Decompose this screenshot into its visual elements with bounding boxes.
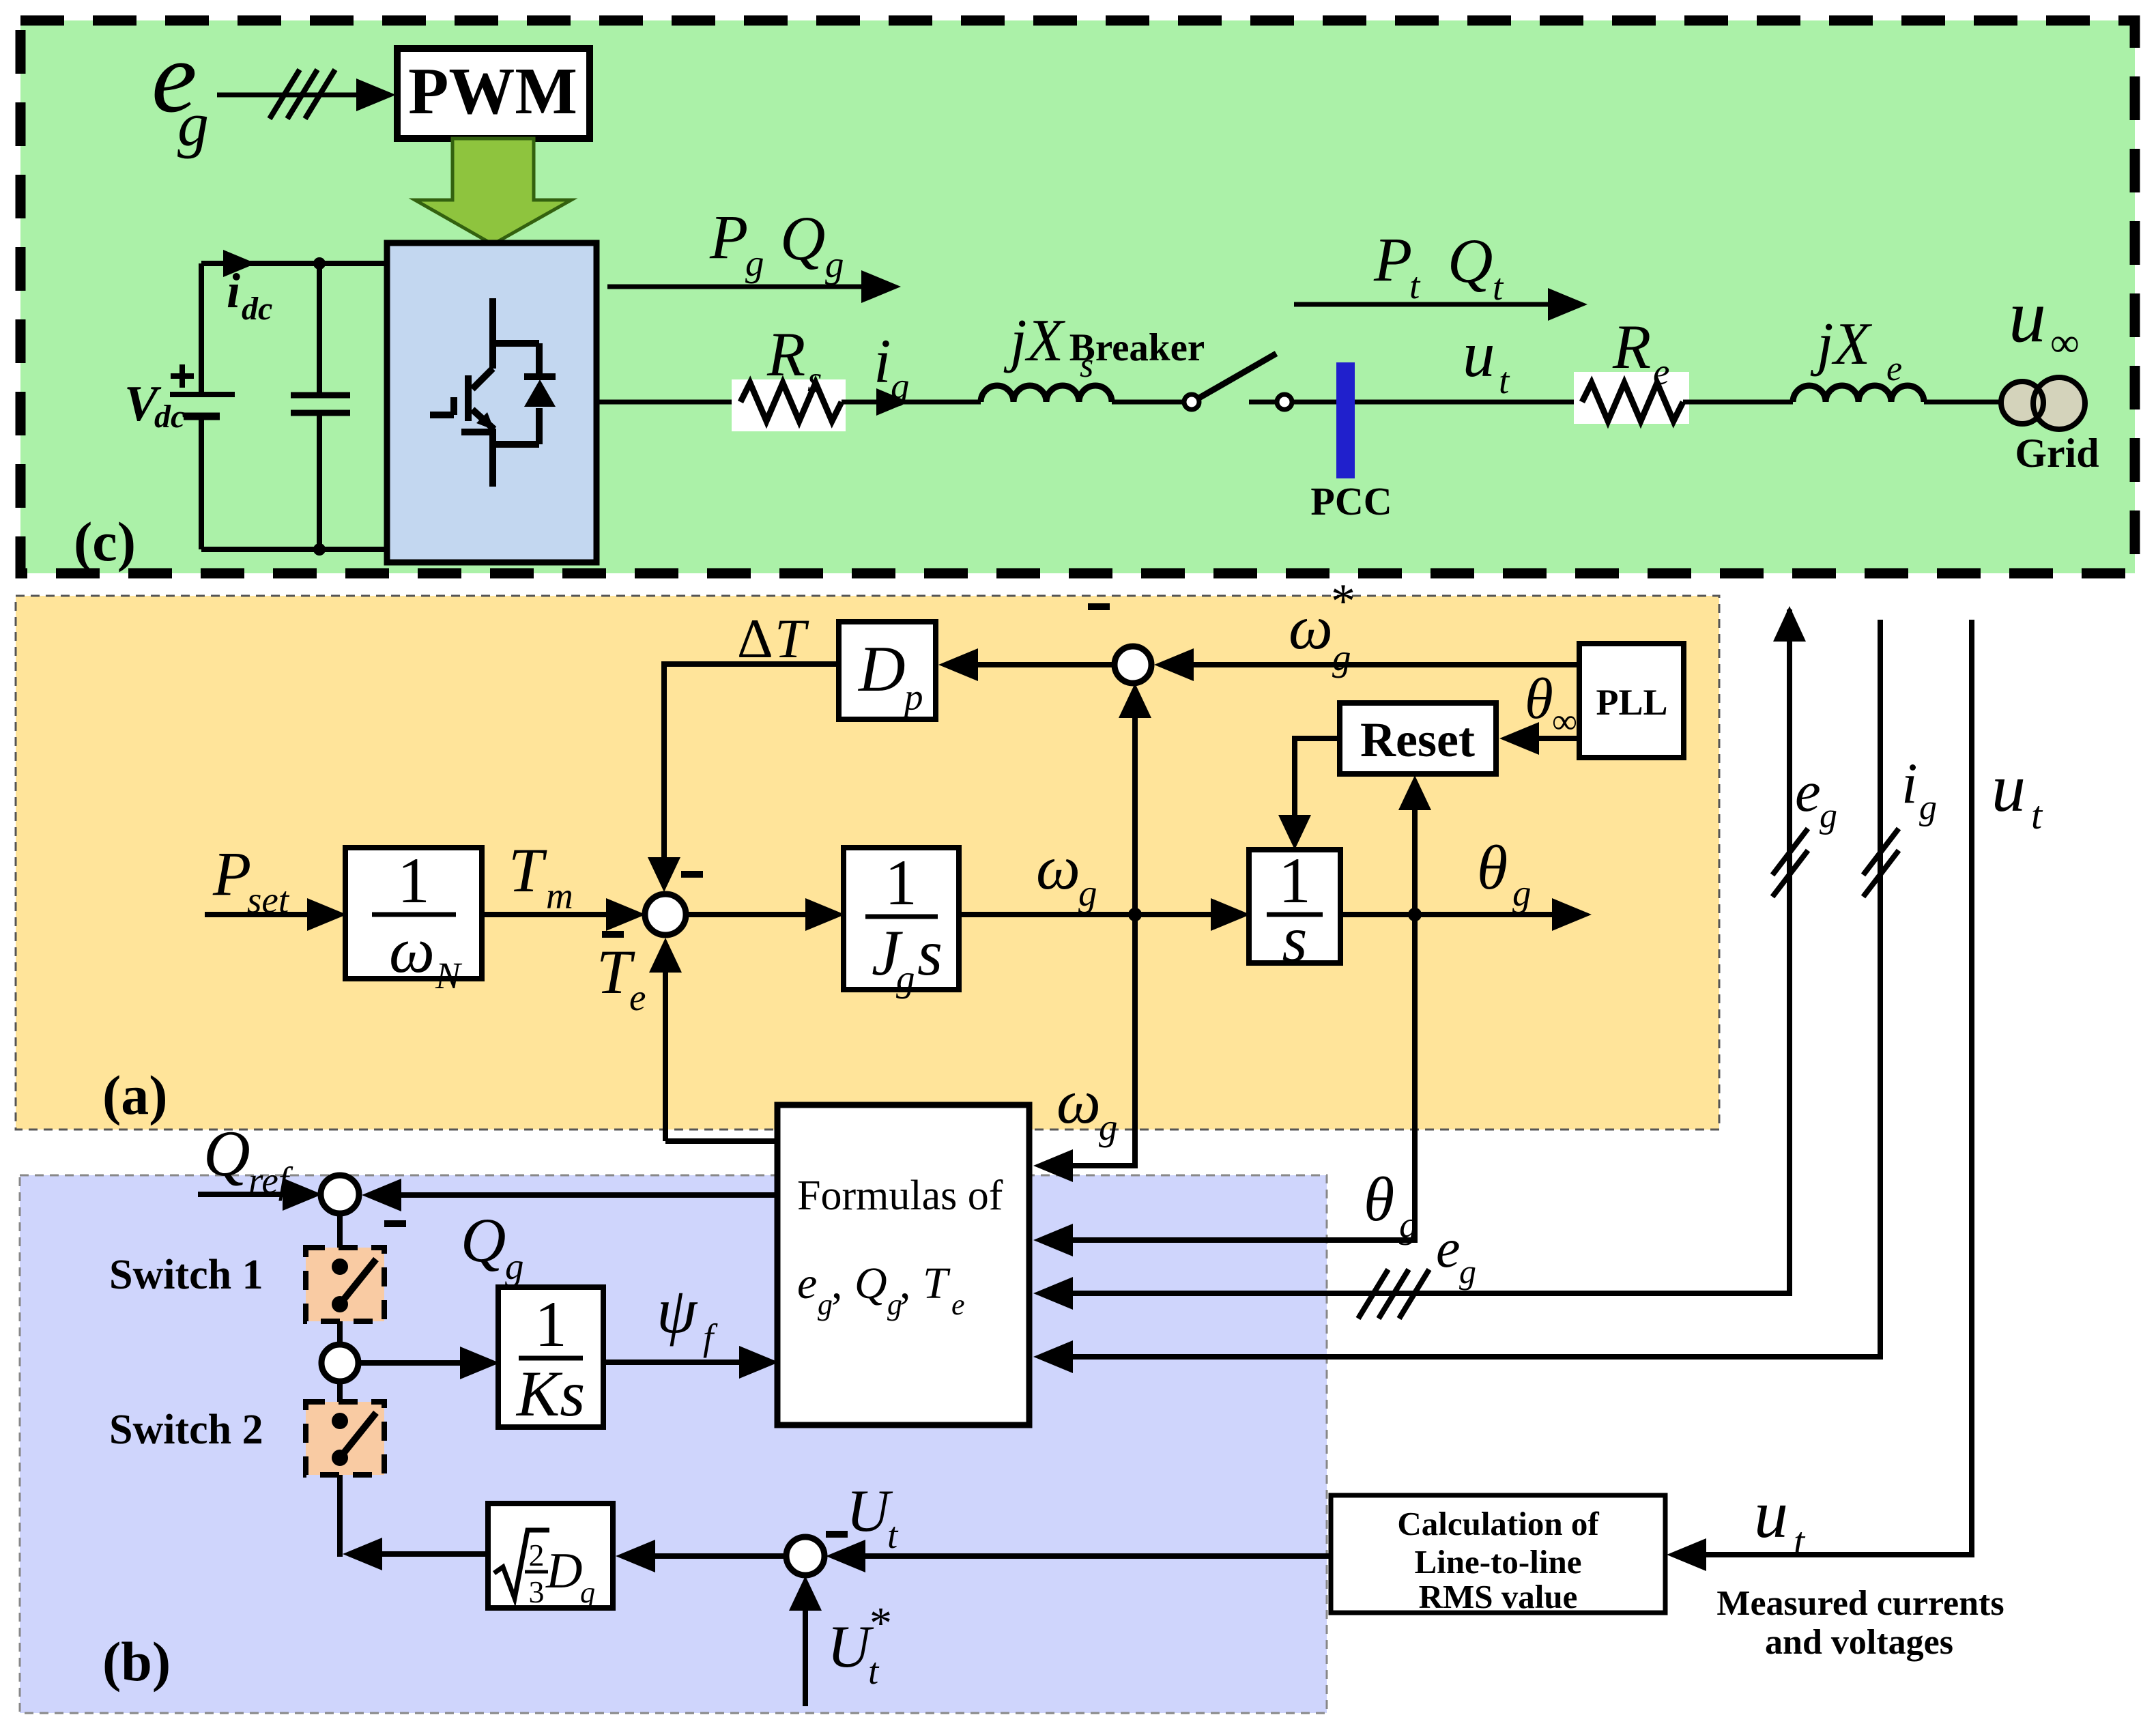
double slash ig vertical: [1863, 829, 1899, 897]
diode D1: [524, 373, 556, 380]
svg-text:g: g: [177, 89, 209, 159]
svg-text:*: *: [1331, 574, 1355, 629]
svg-text:ω: ω: [389, 914, 435, 986]
wire converter ac output: [597, 400, 741, 405]
svg-text:2: 2: [529, 1538, 545, 1572]
svg-text:t: t: [1499, 360, 1510, 401]
svg-text:Reset: Reset: [1360, 713, 1475, 767]
svg-text:(a): (a): [102, 1064, 168, 1126]
svg-text:1: 1: [397, 844, 430, 917]
wire jXe to grid: [1924, 400, 2003, 405]
svg-text:g: g: [1512, 872, 1532, 914]
wire eg to PWM: [217, 93, 362, 98]
svg-text:Q: Q: [461, 1205, 506, 1275]
triple slash eg horizontal: [1358, 1269, 1429, 1319]
wire Pset input: [205, 912, 315, 917]
svg-text:Formulas of: Formulas of: [797, 1173, 1003, 1219]
wire theta-g up into Reset: [1412, 805, 1418, 915]
minus sign Te input: [602, 931, 624, 938]
svg-text:θ: θ: [1364, 1164, 1394, 1234]
minus sign dT input: [681, 871, 703, 878]
panel (c) power circuit green panel: [20, 20, 2135, 573]
resistor Re: [1574, 372, 1689, 424]
inductor jXs: [981, 386, 1112, 402]
wire wg* from PLL to S2: [1185, 662, 1579, 667]
svg-text:,: ,: [831, 1258, 843, 1308]
svg-text:g: g: [1332, 637, 1351, 678]
wire Te from Formulas up into S1: [665, 969, 777, 1141]
wire Qg feedback from Formulas: [392, 1192, 777, 1198]
svg-text:g: g: [891, 365, 910, 407]
svg-text:R: R: [766, 319, 805, 389]
svg-text:T: T: [775, 607, 809, 670]
svg-text:Grid: Grid: [2015, 431, 2099, 476]
svg-text:D: D: [857, 633, 906, 705]
svg-text:1: 1: [534, 1288, 567, 1360]
svg-text:Measured currents: Measured currents: [1716, 1584, 2004, 1623]
wire ig: [842, 400, 981, 405]
svg-text:U: U: [827, 1614, 874, 1680]
svg-text:e: e: [797, 1258, 817, 1308]
wire switch1 to node: [337, 1321, 343, 1346]
block 1/wN: [345, 848, 482, 979]
svg-text:P: P: [709, 202, 748, 272]
svg-text:p: p: [902, 676, 923, 718]
svg-text:s: s: [917, 917, 943, 989]
svg-text:θ: θ: [1477, 833, 1508, 902]
svg-text:e: e: [1886, 349, 1902, 388]
wire node to switch2: [337, 1381, 343, 1405]
wire Re to jXe: [1683, 400, 1793, 405]
svg-text:PCC: PCC: [1310, 479, 1392, 523]
wire Tm: [482, 912, 614, 917]
block 1/Jgs: [844, 848, 959, 990]
resistor Rs: [732, 379, 846, 431]
svg-text:g: g: [1919, 788, 1937, 827]
node N1: [321, 1344, 358, 1381]
minus sign S2: [1088, 603, 1110, 610]
svg-text:t: t: [887, 1514, 899, 1556]
svg-text:ω: ω: [1289, 592, 1333, 662]
arrow Pg Qg power flow: [607, 285, 867, 289]
wire wg into Formulas (right input 1): [1065, 915, 1135, 1166]
wire ig measurement into Formulas (right input 4): [1065, 620, 1880, 1357]
svg-text:T: T: [923, 1258, 951, 1308]
svg-text:i: i: [874, 326, 891, 396]
wire 1/s output to theta-g: [1340, 912, 1559, 917]
svg-text:jX: jX: [1810, 311, 1872, 377]
node PCC busbar: [1336, 362, 1355, 478]
wire ut measurement into Calculation box: [1698, 620, 1972, 1555]
summing junction SQ: [321, 1175, 359, 1213]
summing junction SU: [786, 1537, 824, 1575]
svg-text:g: g: [1099, 1106, 1118, 1148]
svg-text:dc: dc: [154, 399, 185, 435]
block Calculation of Line-to-line RMS value: [1331, 1495, 1665, 1613]
svg-text:u: u: [1463, 318, 1495, 390]
svg-text:g: g: [505, 1246, 524, 1287]
panel (b) reactive power control blue panel: [20, 1175, 1327, 1713]
block Dp: [839, 622, 936, 719]
summing junction S2: [1115, 646, 1151, 683]
svg-text:T: T: [508, 835, 547, 905]
svg-text:ω: ω: [1057, 1067, 1101, 1136]
svg-text:e: e: [1653, 351, 1669, 392]
triple slash eg bus: [270, 70, 335, 119]
block Formulas of eg Qg Te: [777, 1105, 1029, 1425]
wire Ut from Calculation box: [857, 1553, 1331, 1559]
block sqrt(2/3)Dq: [488, 1504, 613, 1608]
wire Qref input: [198, 1192, 291, 1197]
block 1/s: [1249, 850, 1340, 963]
svg-text:jX: jX: [1003, 308, 1065, 374]
junction node wg: [1128, 908, 1142, 921]
svg-text:g: g: [1459, 1252, 1476, 1291]
svg-text:PLL: PLL: [1596, 682, 1667, 723]
svg-text:g: g: [825, 244, 844, 285]
svg-text:t: t: [1409, 265, 1421, 306]
svg-text:t: t: [868, 1650, 880, 1692]
switch SW2: [306, 1402, 384, 1475]
source Grid (infinite bus): [2001, 382, 2043, 424]
svg-text:e: e: [1436, 1219, 1461, 1279]
arrow PWM to converter (green block arrow): [415, 139, 571, 244]
wire Dq output to switch chain: [369, 1551, 488, 1557]
svg-text:t: t: [1493, 266, 1504, 308]
svg-text:g: g: [896, 958, 915, 999]
svg-text:g: g: [745, 242, 764, 284]
wire S2 to Dp: [969, 662, 1115, 667]
arrow Pt Qt power flow: [1294, 302, 1553, 307]
svg-text:g: g: [1820, 796, 1837, 835]
wire node to 1/Ks: [358, 1360, 467, 1366]
svg-text:∞: ∞: [1552, 702, 1577, 741]
svg-text:Breaker: Breaker: [1069, 326, 1205, 369]
block PWM U2: [397, 48, 590, 139]
junction node theta-g: [1408, 908, 1422, 921]
svg-text:(b): (b): [102, 1630, 171, 1693]
svg-text:R: R: [1612, 312, 1651, 382]
block Reset: [1340, 703, 1496, 774]
wire psi-f to Formulas: [603, 1360, 747, 1365]
svg-text:e: e: [951, 1288, 965, 1321]
svg-text:θ: θ: [1525, 667, 1553, 731]
svg-text:Switch 1: Switch 1: [109, 1252, 263, 1298]
svg-text:3: 3: [529, 1574, 545, 1609]
svg-text:Δ: Δ: [737, 607, 773, 670]
svg-text:Switch 2: Switch 2: [109, 1407, 263, 1453]
svg-text:Ks: Ks: [515, 1357, 585, 1430]
svg-text:e: e: [1795, 760, 1821, 824]
svg-text:i: i: [227, 263, 240, 318]
svg-text:u: u: [1992, 750, 2026, 826]
svg-text:ψ: ψ: [657, 1274, 698, 1347]
svg-text:Line-to-line: Line-to-line: [1415, 1543, 1582, 1581]
svg-text:i: i: [1901, 751, 1918, 816]
svg-text:g: g: [1399, 1204, 1418, 1246]
wire dc bus top with idc arrow: [201, 261, 387, 266]
wire jXs to breaker: [1112, 400, 1185, 405]
source Vdc battery: [199, 263, 204, 549]
wire switch2 down to Dq feedback: [337, 1475, 343, 1557]
wire wg up into S2: [1132, 713, 1138, 915]
svg-text:and voltages: and voltages: [1765, 1623, 1953, 1662]
svg-text:*: *: [869, 1598, 892, 1648]
wire U sum to Dq block: [642, 1553, 786, 1559]
svg-text:Q: Q: [780, 203, 825, 273]
svg-text:RMS value: RMS value: [1419, 1578, 1578, 1615]
svg-text:t: t: [1794, 1519, 1806, 1564]
panel (a) active power control orange panel: [16, 596, 1719, 1130]
svg-text:q: q: [580, 1576, 595, 1609]
svg-text:u: u: [2009, 274, 2046, 358]
svg-text:D: D: [545, 1543, 582, 1599]
svg-text:dc: dc: [242, 291, 272, 327]
svg-text:e: e: [629, 977, 646, 1018]
junction dots dc bus: [313, 257, 326, 270]
block PLL: [1579, 644, 1684, 758]
svg-text:P: P: [212, 839, 251, 908]
svg-text:t: t: [2031, 793, 2043, 837]
svg-text:N: N: [435, 955, 463, 996]
svg-text:s: s: [1282, 903, 1308, 975]
wire SQ to switch1: [337, 1213, 343, 1250]
wire dT from Dp down into S1: [664, 664, 839, 861]
wire dc bus bottom: [201, 547, 387, 552]
wire PCC to Re: [1355, 400, 1582, 405]
svg-text:Q: Q: [1448, 226, 1493, 296]
svg-text:(c): (c): [74, 510, 136, 573]
converter box U1: [387, 243, 597, 562]
wire breaker to PCC: [1249, 400, 1277, 405]
svg-text:m: m: [546, 875, 573, 917]
transistor IGBT Q1: [430, 298, 539, 487]
wire Ut* reference input: [803, 1605, 808, 1706]
double slash eg vertical: [1772, 829, 1808, 897]
svg-text:s: s: [807, 358, 822, 400]
switch SW1: [306, 1248, 384, 1321]
svg-text:g: g: [818, 1288, 833, 1321]
svg-text:g: g: [1078, 872, 1097, 914]
breaker switch: [1184, 394, 1199, 409]
minus sign Qg input: [384, 1220, 406, 1227]
svg-text:P: P: [1373, 225, 1412, 294]
svg-text:Q: Q: [854, 1258, 887, 1308]
wire wg main line: [959, 912, 1222, 917]
svg-text:u: u: [1754, 1476, 1788, 1552]
wire theta-inf PLL to Reset: [1530, 736, 1579, 741]
wire theta-g into Formulas (right input 2): [1065, 915, 1415, 1240]
svg-text:Q: Q: [203, 1117, 250, 1190]
wire Reset output into 1/s: [1295, 738, 1340, 819]
svg-text:PWM: PWM: [408, 55, 577, 128]
svg-text:,: ,: [900, 1258, 911, 1308]
capacitor Cdc: [317, 263, 322, 549]
summing junction S1: [645, 894, 686, 935]
svg-text:ω: ω: [1036, 833, 1080, 902]
wire eg measurement into Formulas (right input 3): [1065, 609, 1790, 1293]
inductor jXe: [1793, 386, 1924, 402]
svg-text:1: 1: [885, 846, 917, 919]
block 1/Ks: [498, 1287, 603, 1427]
minus sign Ut input: [826, 1531, 848, 1538]
svg-text:Calculation of: Calculation of: [1397, 1505, 1599, 1542]
wire S1 to 1/Jgs: [686, 912, 812, 917]
svg-text:U: U: [846, 1478, 893, 1544]
svg-text:∞: ∞: [2050, 320, 2080, 365]
